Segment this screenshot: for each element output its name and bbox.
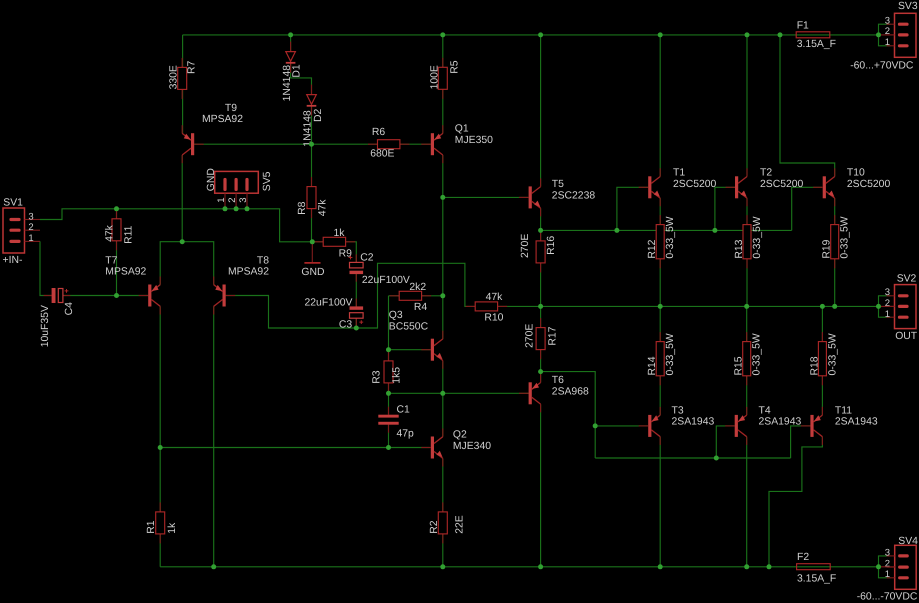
svg-text:1: 1 — [885, 569, 890, 580]
junction bottom rail / R2 — [440, 564, 445, 569]
wire rail to R5 — [442, 35, 444, 67]
wire lower base bus — [595, 457, 790, 459]
resistor R9 — [314, 228, 355, 259]
wire R17 bottom — [540, 350, 542, 372]
svg-text:0-33_5W: 0-33_5W — [840, 216, 851, 258]
junction Q3 emitter / Q2 collector — [440, 391, 445, 396]
junction output bus / R12 R14 — [658, 304, 663, 309]
wire V+ top rail — [183, 34, 879, 36]
svg-text:F2: F2 — [797, 552, 809, 563]
svg-text:330E: 330E — [168, 65, 179, 89]
svg-text:2SC5200: 2SC5200 — [760, 179, 804, 190]
svg-text:10uF35V: 10uF35V — [40, 305, 51, 347]
junction bottom rail / SV4 — [876, 564, 881, 569]
resistor R12 — [647, 215, 676, 268]
svg-text:R5: R5 — [450, 60, 461, 74]
svg-text:T4: T4 — [759, 405, 771, 416]
svg-text:MJE340: MJE340 — [453, 441, 491, 452]
svg-text:Q1: Q1 — [455, 123, 469, 134]
svg-text:SV5: SV5 — [262, 171, 273, 191]
capacitor C4 10uF35V — [40, 288, 75, 347]
resistor R13 — [734, 215, 763, 268]
svg-text:SV1: SV1 — [3, 198, 23, 209]
connector SV1 (+IN-) — [3, 198, 41, 267]
svg-text:R18: R18 — [809, 356, 820, 375]
svg-text:GND: GND — [301, 267, 324, 278]
junction lower bus / T4 riser — [714, 456, 719, 461]
svg-text:R15: R15 — [734, 356, 745, 375]
wire Q3 base — [389, 349, 431, 351]
wire output bus to R14 — [659, 306, 661, 341]
resistor R3 — [372, 351, 403, 392]
wire R10 right pin — [498, 305, 541, 307]
wire T9 collector to tail node — [181, 155, 183, 242]
junction bottom rail / T8 — [211, 564, 216, 569]
junction top rail / T10 branch — [778, 32, 783, 37]
junction bottom rail / T4 — [744, 564, 749, 569]
wire T2 base riser — [715, 187, 736, 230]
junction top rail / R5 — [440, 32, 445, 37]
svg-text:3.15A_F: 3.15A_F — [797, 39, 836, 50]
wire R11 top pin — [116, 209, 118, 219]
wire T6 node to lower base bus — [541, 372, 596, 458]
wire R18 to T11 emitter — [821, 376, 823, 415]
transistor T4 2SA1943 — [725, 405, 801, 445]
wire C3 to feedback node — [355, 318, 357, 328]
wire bias to T6 base — [389, 392, 530, 394]
resistor R4 — [390, 282, 431, 313]
capacitor C2 22uF100V — [349, 253, 410, 287]
resistor R17 — [525, 318, 559, 359]
fuse F2 3.15A_F — [797, 552, 837, 584]
transistor T8 MPSA92 — [214, 255, 270, 314]
wire C4 to T7 base — [63, 295, 148, 297]
svg-text:R13: R13 — [734, 239, 745, 258]
wire R9 left pin — [312, 241, 323, 243]
svg-text:C1: C1 — [397, 405, 411, 416]
wire R4 right pin — [422, 295, 443, 297]
connector SV5 (GND) — [206, 168, 273, 209]
svg-text:OUT: OUT — [895, 331, 918, 342]
wire T9 base row — [192, 143, 377, 145]
wire compensation row — [160, 447, 430, 449]
svg-text:D1: D1 — [292, 64, 303, 78]
transistor T1 2SC5200 — [639, 168, 717, 207]
svg-text:3: 3 — [885, 547, 890, 558]
svg-text:1: 1 — [885, 37, 890, 48]
svg-text:3: 3 — [885, 16, 890, 27]
resistor R16 — [520, 231, 557, 272]
svg-text:C3: C3 — [339, 320, 353, 331]
wire R12 to output bus — [659, 259, 661, 307]
svg-text:2SA1943: 2SA1943 — [835, 417, 878, 428]
wire R3 bottom pin — [388, 383, 390, 393]
svg-text:MPSA92: MPSA92 — [105, 267, 146, 278]
capacitor C3 22uF100V — [305, 298, 364, 331]
wire C2 to C3 — [355, 274, 357, 306]
wire R4 left pin — [389, 295, 400, 297]
svg-text:T5: T5 — [552, 179, 564, 190]
svg-text:3: 3 — [885, 287, 890, 298]
junction R3 / T6 base — [386, 391, 391, 396]
svg-text:2: 2 — [28, 222, 33, 233]
svg-text:2SC5200: 2SC5200 — [673, 179, 717, 190]
svg-text:F1: F1 — [797, 21, 809, 32]
wire GND net from SV1 pin3 — [40, 209, 312, 242]
wire T8 base feedback loop — [226, 263, 476, 328]
connector SV4 — [857, 536, 918, 603]
svg-text:0-33_5W: 0-33_5W — [752, 333, 763, 375]
wire left column top — [182, 35, 184, 67]
svg-text:T9: T9 — [225, 103, 237, 114]
wire T10 emitter to R19 — [834, 198, 836, 225]
wire R19 to output bus — [834, 259, 836, 307]
wire driver base bus — [541, 229, 792, 231]
junction base bus / T1 riser — [614, 228, 619, 233]
svg-text:2SA1943: 2SA1943 — [672, 417, 715, 428]
svg-text:T8: T8 — [257, 255, 269, 266]
wire T3 base — [595, 425, 648, 427]
junction bias / D2 R8 — [309, 142, 314, 147]
svg-text:R12: R12 — [647, 239, 658, 258]
svg-text:100E: 100E — [429, 65, 440, 89]
wire R16 — [540, 230, 542, 241]
transistor Q2 MJE340 — [421, 429, 491, 467]
junction output bus / R16 R17 — [538, 304, 543, 309]
svg-text:2SA1943: 2SA1943 — [759, 417, 802, 428]
wire T11 base riser — [791, 426, 811, 458]
svg-text:R6: R6 — [372, 127, 386, 138]
svg-text:22uF100V: 22uF100V — [362, 275, 410, 286]
svg-text:1: 1 — [885, 309, 890, 320]
resistor R7 — [168, 58, 197, 99]
wire T4 base riser — [716, 426, 735, 458]
wire T3 collector down — [659, 437, 661, 567]
wire R13 to output bus — [746, 259, 748, 307]
junction top rail / SV3 — [876, 32, 881, 37]
resistor R15 — [734, 332, 763, 385]
junction output bus / R19 — [832, 304, 837, 309]
svg-text:2SC2238: 2SC2238 — [552, 190, 596, 201]
junction T5 base — [440, 195, 445, 200]
wire output bus to R15 — [746, 306, 748, 341]
wire T5 emitter — [540, 208, 542, 230]
wire T6 collector down — [540, 405, 542, 567]
wire D2 cathode to bias node — [311, 107, 313, 145]
wire T5 collector up — [540, 35, 542, 187]
junction GND / SV5 pin2 — [234, 206, 239, 211]
junction diff tail — [180, 239, 185, 244]
svg-text:R16: R16 — [546, 236, 557, 255]
svg-text:MPSA92: MPSA92 — [202, 114, 243, 125]
svg-text:0-33_5W: 0-33_5W — [827, 333, 838, 375]
wire R16 to output bus — [540, 263, 542, 307]
junction top rail / T2 — [745, 32, 750, 37]
svg-text:680E: 680E — [370, 149, 394, 160]
junction output bus / R13 R15 — [744, 304, 749, 309]
svg-text:T10: T10 — [847, 168, 865, 179]
wire Q1 collector column — [442, 155, 444, 339]
wire D1 cathode to D2 anode — [291, 64, 312, 95]
svg-text:1k5: 1k5 — [392, 367, 403, 384]
svg-text:D2: D2 — [313, 108, 324, 122]
svg-text:MPSA92: MPSA92 — [228, 267, 269, 278]
svg-text:0-33_5W: 0-33_5W — [752, 216, 763, 258]
svg-text:R1: R1 — [146, 520, 157, 534]
junction GND / R9 R8 — [310, 239, 315, 244]
wire R5 to Q1 emitter — [442, 90, 444, 134]
junction C1 / comp row — [386, 445, 391, 450]
svg-text:270E: 270E — [525, 324, 536, 348]
junction GND / SV5 pin1 — [223, 206, 228, 211]
wire bottom V- rail — [160, 566, 878, 568]
svg-text:2SC5200: 2SC5200 — [847, 179, 891, 190]
svg-text:C2: C2 — [360, 253, 374, 264]
wire T2 emitter to R13 — [746, 198, 748, 225]
wire R2 to rail — [442, 534, 444, 567]
svg-text:R17: R17 — [548, 326, 559, 345]
wire T4 collector down — [746, 437, 748, 567]
wire R14 to T3 emitter — [659, 376, 661, 415]
junction bottom rail / T3 — [658, 564, 663, 569]
svg-text:0-33_5W: 0-33_5W — [665, 333, 676, 375]
wire SV4 tie — [879, 556, 891, 578]
svg-text:T3: T3 — [672, 405, 684, 416]
svg-text:R7: R7 — [186, 60, 197, 74]
svg-text:R10: R10 — [484, 313, 503, 324]
wire R17 top — [540, 306, 542, 327]
svg-text:1: 1 — [216, 198, 227, 203]
transistor T10 2SC5200 — [813, 168, 890, 207]
junction top rail / T1 — [658, 32, 663, 37]
transistor Q1 MJE350 — [421, 123, 493, 163]
transistor T7 MPSA92 — [105, 255, 160, 314]
wire T10 base riser — [792, 187, 822, 230]
svg-text:SV3: SV3 — [898, 1, 918, 12]
svg-text:47p: 47p — [397, 429, 415, 440]
junction R4 / Q1 collector — [440, 293, 445, 298]
wire SV2 pin2 — [879, 305, 895, 307]
junction T3 base riser — [593, 423, 598, 428]
connector SV2 — [885, 273, 918, 342]
svg-text:3: 3 — [28, 211, 33, 222]
junction base bus / T2 riser — [712, 228, 717, 233]
junction bottom rail / T11 — [767, 564, 772, 569]
transistor T5 2SC2238 — [519, 178, 595, 216]
wire T11 collector zigzag — [769, 437, 822, 567]
wire R15 to T4 emitter — [746, 376, 748, 415]
connector SV3 — [850, 1, 918, 71]
resistor R5 — [429, 58, 460, 99]
svg-text:SV4: SV4 — [898, 536, 918, 547]
junction T5 emitter / R16 — [538, 228, 543, 233]
wire SV1 pin1 to C4 — [40, 241, 52, 295]
svg-text:R8: R8 — [297, 201, 308, 215]
svg-text:3.15A_F: 3.15A_F — [797, 573, 836, 584]
resistor R10 — [466, 292, 507, 324]
svg-text:T7: T7 — [105, 255, 117, 266]
wire output bus to R18 — [821, 306, 823, 341]
wire SV4 pin2 — [879, 566, 895, 568]
junction GND / SV5 pin3 — [245, 206, 250, 211]
svg-text:1k: 1k — [334, 228, 346, 239]
wire T1 base riser — [617, 187, 648, 230]
svg-text:22E: 22E — [454, 515, 465, 534]
junction output bus / R18 — [820, 304, 825, 309]
wire output bus — [541, 305, 879, 307]
wire T7 collector down to rail — [159, 306, 161, 567]
junction bottom rail / T6 — [538, 564, 543, 569]
transistor T6 2SA968 — [519, 374, 589, 412]
wire T5 base — [443, 196, 528, 198]
svg-text:2SA968: 2SA968 — [552, 387, 589, 398]
junction R17 / T6 emitter — [538, 369, 543, 374]
resistor R19 — [822, 215, 851, 268]
svg-text:T1: T1 — [673, 168, 685, 179]
svg-text:R14: R14 — [647, 356, 658, 375]
resistor R14 — [647, 332, 676, 385]
svg-text:270E: 270E — [520, 234, 531, 258]
wire to C1 — [388, 393, 390, 414]
resistor R8 — [297, 177, 329, 218]
svg-text:1: 1 — [28, 233, 33, 244]
svg-text:R4: R4 — [414, 302, 428, 313]
junction comp row left — [158, 445, 163, 450]
svg-text:2: 2 — [227, 198, 238, 203]
junction input / R11 — [114, 293, 119, 298]
svg-text:47k: 47k — [486, 292, 504, 303]
diode D2 1N4148 — [302, 85, 324, 147]
svg-text:47k: 47k — [318, 199, 329, 217]
svg-text:2: 2 — [885, 26, 890, 37]
fuse F1 3.15A_F — [796, 21, 836, 51]
junction top rail / D1 — [288, 32, 293, 37]
transistor T2 2SC5200 — [726, 168, 804, 207]
svg-text:1N4148: 1N4148 — [302, 110, 313, 147]
wire T1 collector — [659, 35, 661, 177]
wire SV2 tie — [879, 296, 891, 317]
wire R9 to C2 — [346, 242, 357, 263]
transistor T11 2SA1943 — [801, 405, 878, 445]
svg-text:2: 2 — [885, 298, 890, 309]
svg-text:1k: 1k — [167, 522, 178, 534]
svg-text:47k: 47k — [105, 224, 116, 242]
svg-text:MJE350: MJE350 — [455, 135, 493, 146]
svg-text:-60...+70VDC: -60...+70VDC — [850, 60, 914, 71]
transistor T9 MPSA92 — [182, 103, 243, 163]
svg-text:Q3: Q3 — [389, 310, 403, 321]
junction Q3 base / R3 — [386, 347, 391, 352]
svg-text:3: 3 — [238, 198, 249, 203]
svg-text:+IN-: +IN- — [3, 255, 23, 266]
wire T1 emitter to R12 — [659, 198, 661, 225]
wire R11 bottom to input node — [116, 241, 118, 296]
wire SV3 pin2 — [879, 34, 895, 36]
wire Q2 emitter to R2 — [442, 459, 444, 512]
resistor R2 — [429, 502, 466, 543]
svg-text:T2: T2 — [760, 168, 772, 179]
svg-text:T11: T11 — [835, 405, 852, 416]
svg-text:Q2: Q2 — [453, 430, 467, 441]
transistor Q3 BC550C — [389, 310, 443, 369]
wire R8 top pin — [311, 144, 313, 186]
svg-text:SV2: SV2 — [897, 273, 917, 284]
svg-text:R19: R19 — [822, 239, 833, 258]
resistor R11 — [105, 209, 135, 250]
junction GND / R11 — [114, 206, 119, 211]
svg-text:R11: R11 — [124, 225, 135, 244]
wire T8 collector down — [213, 306, 215, 567]
svg-text:2: 2 — [885, 559, 890, 570]
resistor R18 — [809, 332, 838, 385]
wire Q3 emitter to VAS node — [442, 361, 444, 436]
wire R6 to Q1 base — [400, 143, 431, 145]
svg-text:R2: R2 — [429, 520, 440, 534]
wire C1 to comp row — [388, 425, 390, 448]
svg-text:-60...-70VDC: -60...-70VDC — [857, 592, 918, 603]
wire diff pair emitters — [160, 242, 214, 285]
junction output bus / SV2 — [876, 304, 881, 309]
resistor R6 — [368, 127, 409, 160]
transistor T3 2SA1943 — [639, 405, 715, 445]
svg-text:22uF100V: 22uF100V — [305, 298, 353, 309]
wire D1 anode — [290, 35, 292, 52]
resistor R1 — [146, 502, 178, 543]
svg-text:0-33_5W: 0-33_5W — [665, 216, 676, 258]
diode D1 1N4148 — [282, 42, 303, 102]
junction C3 / feedback — [354, 326, 359, 331]
wire T2 collector — [746, 35, 748, 177]
svg-text:2k2: 2k2 — [409, 282, 426, 293]
svg-text:T6: T6 — [552, 375, 564, 386]
ground GND symbol — [301, 242, 324, 278]
capacitor C1 47p — [378, 405, 414, 440]
wire T10 collector branch — [780, 35, 835, 177]
wire T6 emitter — [540, 372, 542, 383]
junction top rail / T5 — [538, 32, 543, 37]
svg-text:C4: C4 — [64, 302, 75, 316]
wire SV3 tie — [879, 24, 891, 46]
svg-text:R3: R3 — [372, 370, 383, 384]
svg-text:GND: GND — [206, 168, 217, 191]
wire R4 node down to Q3 base node — [388, 296, 390, 361]
wire R8 bottom to GND node — [311, 209, 313, 242]
svg-text:BC550C: BC550C — [389, 321, 429, 332]
wire R7 to T9 emitter — [182, 90, 184, 133]
